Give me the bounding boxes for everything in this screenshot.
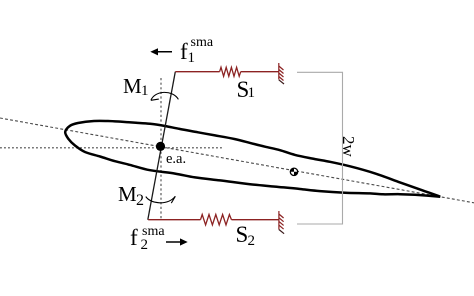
wire spring S1 to wall	[241, 71, 279, 73]
label f2^sma	[130, 226, 138, 249]
wire lever to spring S2	[148, 219, 200, 221]
2w bracket	[297, 72, 343, 224]
wire spring S2 to wall	[232, 219, 279, 221]
wire lever to spring S1	[175, 71, 219, 73]
f2 arrow (right)	[166, 238, 188, 245]
f1 arrow (left)	[150, 48, 172, 55]
horizontal dashed line through e.a.	[0, 147, 222, 149]
label S2	[236, 223, 249, 246]
wall hatch top	[279, 63, 284, 81]
label M2	[118, 184, 137, 205]
spring S1	[220, 67, 241, 76]
spring S2	[201, 215, 232, 225]
label S1	[237, 78, 250, 101]
wall hatch bottom	[279, 211, 284, 230]
e.a. dot	[156, 142, 165, 151]
label 2w (rotated)	[340, 136, 357, 157]
attachment lever line	[148, 72, 176, 220]
label f1^sma	[180, 40, 188, 63]
label M1	[123, 76, 142, 97]
label e.a.	[166, 152, 186, 167]
M1 moment arc	[151, 92, 179, 100]
chord dashed line	[0, 118, 474, 203]
airfoil outline	[65, 121, 440, 197]
vertical dashed line through e.a.	[160, 78, 162, 219]
CG symbol	[290, 168, 297, 175]
M2 moment arc	[146, 196, 176, 203]
